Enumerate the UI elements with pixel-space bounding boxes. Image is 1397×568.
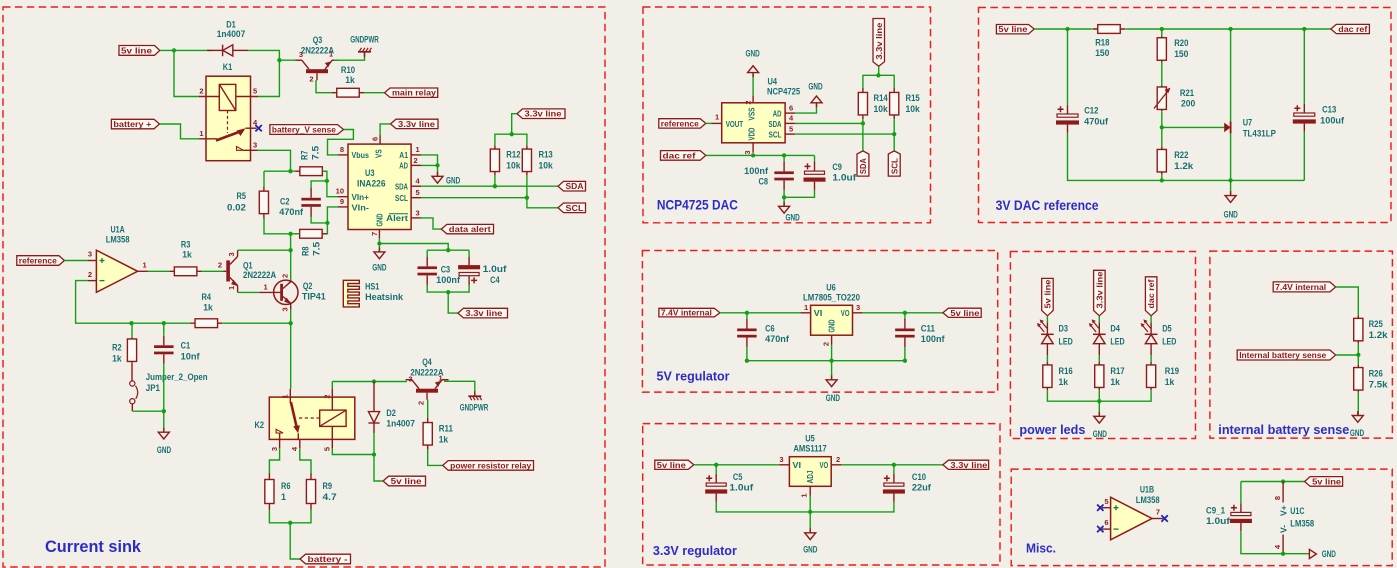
wire bottom rail	[1162, 179, 1305, 181]
resistor R7 7.5	[295, 170, 327, 172]
wire K1... K2 pin2 up	[331, 382, 333, 389]
svg-text:7.4V internal: 7.4V internal	[1275, 282, 1326, 292]
svg-text:3: 3	[253, 141, 257, 150]
junction	[325, 221, 329, 225]
wire JP1 to C1 node	[132, 410, 164, 412]
svg-text:R8: R8	[301, 247, 311, 257]
svg-text:Q4: Q4	[422, 357, 432, 367]
power label 7.4V internal sense	[1273, 282, 1335, 292]
svg-text:SDA: SDA	[858, 158, 868, 174]
svg-text:R2: R2	[112, 343, 122, 353]
svg-text:2: 2	[323, 395, 332, 399]
junction	[288, 169, 292, 173]
svg-text:1: 1	[281, 492, 286, 502]
svg-text:R4: R4	[202, 292, 212, 302]
svg-text:R3: R3	[181, 240, 191, 250]
wire Q4 base down to R11	[427, 400, 429, 418]
svg-text:GND: GND	[1350, 428, 1365, 438]
section box 3V DAC reference	[979, 8, 1392, 223]
svg-text:2: 2	[281, 274, 290, 278]
junction	[1160, 125, 1164, 129]
wire 5v line to U1C V+	[1241, 481, 1305, 483]
ground GND	[158, 428, 169, 439]
wire node to R8	[322, 223, 327, 234]
svg-text:U1B: U1B	[1140, 485, 1155, 495]
svg-text:4.7: 4.7	[323, 492, 337, 502]
LED D4	[1089, 316, 1106, 363]
section box Misc	[1011, 469, 1392, 565]
svg-text:main relay: main relay	[392, 88, 436, 98]
wire R11 to power resistor relay	[428, 450, 443, 466]
svg-text:1: 1	[281, 395, 290, 399]
power label 5v line	[119, 46, 160, 56]
svg-text:SCL: SCL	[566, 203, 584, 213]
capacitor C8 100nf	[783, 162, 785, 172]
svg-text:5: 5	[789, 125, 793, 134]
svg-text:GND: GND	[746, 49, 761, 59]
svg-text:GND: GND	[827, 320, 837, 333]
svg-text:AMS1117: AMS1117	[793, 444, 826, 454]
wire R25 to R26	[1357, 344, 1359, 365]
ground GND 3.3V reg	[805, 528, 816, 539]
svg-text:U1C: U1C	[1290, 506, 1305, 516]
junction	[903, 359, 907, 363]
wire U3 Alert to data alert	[421, 218, 441, 229]
junction	[372, 452, 376, 456]
junction	[325, 179, 329, 183]
junction	[435, 163, 439, 167]
svg-text:3: 3	[281, 307, 290, 311]
svg-text:3.3v line: 3.3v line	[950, 460, 987, 470]
net label SDA vertical	[857, 151, 869, 176]
svg-text:1: 1	[439, 374, 443, 383]
svg-text:R21: R21	[1180, 88, 1194, 98]
svg-text:GND: GND	[157, 445, 172, 455]
svg-text:3.3v line: 3.3v line	[525, 109, 562, 119]
svg-text:3.3v line: 3.3v line	[465, 308, 502, 318]
wire node to 5v line label	[374, 455, 383, 482]
resistor R2 1k	[131, 337, 133, 363]
svg-text:R20: R20	[1174, 38, 1188, 48]
wire dac ref rail	[706, 154, 815, 156]
svg-text:C13: C13	[1322, 105, 1336, 115]
wire Q2 emitter down to rail	[290, 309, 292, 323]
svg-text:1.0uf: 1.0uf	[1206, 516, 1231, 526]
resistor R6 1	[268, 474, 270, 510]
svg-text:LED: LED	[1110, 336, 1125, 346]
wire C12 top	[1067, 29, 1069, 105]
svg-text:3: 3	[299, 50, 303, 59]
svg-text:GND: GND	[803, 545, 818, 555]
wire U3 SDA line	[421, 185, 558, 187]
svg-text:C12: C12	[1084, 106, 1098, 116]
svg-text:dac ref: dac ref	[1338, 24, 1367, 34]
svg-text:V-: V-	[1278, 525, 1288, 533]
svg-text:1k: 1k	[203, 303, 213, 313]
wire 5v line to D1 anode	[160, 49, 212, 51]
IC U4 NCP4725	[722, 103, 785, 143]
power symbol GNDPWR top	[358, 51, 371, 53]
wire node to Q3 collector	[279, 59, 295, 61]
wire sense node	[1336, 354, 1359, 356]
wire R4 to emitter node	[222, 322, 290, 324]
ground GND at U4 AD	[811, 96, 822, 107]
svg-text:150: 150	[1174, 49, 1188, 59]
section box power leds	[1010, 252, 1195, 439]
wire to U6 VI	[720, 312, 801, 314]
wire U4 SCL line	[795, 133, 894, 135]
net label 3.3v line 3.3V reg	[943, 460, 989, 469]
resistor R18 150	[1093, 28, 1125, 30]
net label dac ref at U4	[661, 151, 706, 161]
wire C5 top	[715, 465, 717, 474]
resistor R16 1k	[1046, 362, 1048, 390]
svg-text:3.3V regulator: 3.3V regulator	[653, 544, 737, 558]
svg-text:1k: 1k	[1110, 377, 1120, 387]
svg-text:AD: AD	[773, 108, 782, 118]
IC U6 LM7805_TO220	[811, 305, 853, 335]
wire K2 pin4 to R9	[300, 448, 311, 474]
wire reference to U1A +	[64, 260, 88, 262]
svg-text:5v line: 5v line	[998, 24, 1027, 34]
svg-text:10k: 10k	[539, 161, 554, 171]
diode D1 1n4007	[207, 45, 248, 57]
junction	[172, 48, 176, 52]
svg-text:3: 3	[416, 209, 420, 218]
junction	[372, 379, 376, 383]
svg-text:VOUT: VOUT	[726, 119, 744, 129]
svg-text:3V DAC reference: 3V DAC reference	[996, 197, 1099, 213]
junction	[1356, 353, 1360, 357]
resistor R15 10k	[893, 88, 895, 119]
svg-text:3: 3	[408, 375, 412, 384]
ground GND above U4	[748, 66, 759, 77]
wire C13 top	[1303, 29, 1305, 104]
capacitor C13 100uf polarized	[1303, 104, 1305, 113]
section box 5V regulator	[642, 251, 997, 393]
svg-text:ADJ: ADJ	[805, 470, 815, 483]
junction	[1302, 27, 1306, 31]
svg-text:U3: U3	[365, 168, 375, 178]
LED D5	[1141, 316, 1158, 363]
wire U5 VO to 3.3v line	[841, 464, 943, 466]
svg-text:dac ref: dac ref	[663, 150, 696, 160]
no-connect X U1B pin7	[1161, 515, 1167, 521]
svg-text:GNDPWR: GNDPWR	[460, 403, 489, 413]
svg-text:R14: R14	[874, 93, 888, 103]
net label 3.3v line at caps	[458, 308, 508, 318]
net label data alert	[441, 224, 493, 233]
wire R17 to rail	[1098, 390, 1100, 401]
no-connect X U1B pin6	[1097, 526, 1103, 532]
power label battery +	[111, 119, 159, 129]
svg-text:LED: LED	[1059, 336, 1074, 346]
svg-text:R18: R18	[1095, 38, 1109, 48]
wire bottom rail 3.3V reg	[716, 502, 894, 512]
ground GND at U3 AD	[432, 172, 443, 183]
svg-text:Q3: Q3	[313, 35, 323, 45]
svg-text:VSS: VSS	[747, 107, 757, 120]
svg-text:C9_1: C9_1	[1206, 506, 1225, 516]
wire top rail right	[1125, 28, 1331, 30]
junction	[1160, 27, 1164, 31]
wire U1A out to R3	[148, 270, 170, 272]
transistor Q2 TIP41	[259, 280, 298, 309]
wire battery_V sense to U3 Vbus pin 8	[328, 130, 354, 155]
svg-text:5: 5	[323, 447, 332, 451]
wire Q3 emitter to GNDPWR	[334, 52, 365, 60]
svg-text:GND: GND	[786, 213, 801, 223]
svg-text:AD: AD	[399, 161, 408, 171]
junction	[892, 132, 896, 136]
svg-text:1: 1	[329, 50, 333, 59]
svg-text:3: 3	[856, 303, 860, 312]
svg-text:battery -: battery -	[308, 554, 348, 564]
svg-text:K1: K1	[223, 62, 233, 72]
junction	[288, 521, 292, 525]
svg-text:3: 3	[88, 250, 92, 259]
resistor R4 1k	[190, 322, 222, 324]
wire to 3.3v label bottom	[448, 292, 458, 313]
junction	[446, 290, 450, 294]
wire rail to R2	[131, 323, 133, 337]
transistor Q1 2N2222A	[224, 250, 239, 292]
wire U4 SDA line	[795, 122, 863, 124]
svg-text:10nf: 10nf	[181, 352, 201, 362]
resistor R10 1k	[332, 92, 364, 94]
svg-text:1.0uf: 1.0uf	[832, 173, 857, 183]
svg-text:VO: VO	[820, 460, 829, 470]
wire R5 top	[263, 171, 265, 186]
capacitor C10 22uf polarized	[893, 474, 895, 483]
svg-text:1k: 1k	[345, 75, 355, 85]
svg-text:5v line: 5v line	[121, 45, 152, 55]
ground GND 5V reg	[826, 375, 837, 386]
resistor R19 1k	[1150, 362, 1152, 390]
svg-text:7.5: 7.5	[311, 146, 321, 160]
ground GND 3V DAC	[1225, 191, 1236, 202]
wire node to U3 pin 10	[327, 181, 338, 197]
wire R13 bottom	[526, 175, 528, 197]
svg-text:SDA: SDA	[395, 182, 408, 192]
svg-text:3.3v line: 3.3v line	[398, 119, 435, 129]
svg-text:VI: VI	[814, 308, 823, 318]
svg-text:R26: R26	[1369, 369, 1383, 379]
svg-text:Misc.: Misc.	[1026, 541, 1056, 556]
resistor R17 1k	[1098, 362, 1100, 390]
LED D3	[1037, 316, 1054, 363]
svg-text:470nf: 470nf	[765, 334, 790, 344]
svg-text:reference: reference	[19, 256, 57, 266]
wire C2 bottom to VIn- node	[311, 217, 327, 223]
svg-text:1: 1	[800, 494, 809, 498]
capacitor C4 1.0uf polarized	[468, 257, 470, 265]
svg-text:R7: R7	[300, 151, 310, 161]
wire GND stub 3V DAC	[1230, 180, 1232, 195]
svg-text:6: 6	[789, 104, 793, 113]
capacitor C5 1.0uf polarized	[715, 474, 717, 483]
wire C9_1 top	[1240, 482, 1242, 504]
svg-text:6: 6	[1104, 518, 1108, 527]
junction	[861, 121, 865, 125]
svg-text:0.02: 0.02	[227, 203, 246, 213]
svg-text:2: 2	[417, 401, 426, 405]
IC U3 INA226	[348, 144, 411, 229]
wire R10 to main relay	[364, 92, 385, 94]
svg-text:GND: GND	[826, 393, 841, 403]
svg-text:1: 1	[264, 283, 268, 292]
svg-text:TIP41: TIP41	[302, 292, 326, 302]
junction	[892, 463, 896, 467]
svg-text:3: 3	[779, 455, 783, 464]
capacitor C11 100nf	[904, 319, 906, 329]
wire reference to VOUT	[706, 122, 712, 124]
wire R15 bottom	[893, 119, 895, 134]
power label 5v line vertical	[1042, 278, 1054, 315]
svg-text:SCL: SCL	[889, 158, 899, 174]
resistor R26 7.5k	[1357, 365, 1359, 393]
svg-text:6: 6	[371, 137, 380, 141]
svg-text:LM358: LM358	[1136, 495, 1160, 505]
svg-text:power leds: power leds	[1019, 422, 1085, 437]
svg-text:5v line: 5v line	[391, 476, 422, 486]
resistor R20 150	[1161, 35, 1163, 63]
svg-text:1.0uf: 1.0uf	[483, 264, 508, 274]
svg-text:1: 1	[804, 303, 808, 312]
net label battery -	[300, 554, 351, 564]
wire R3 to Q1 base	[202, 270, 224, 272]
section box Current sink	[3, 7, 605, 567]
junction	[714, 463, 718, 467]
svg-text:2: 2	[836, 455, 840, 464]
junction	[782, 195, 786, 199]
svg-text:3.3v line: 3.3v line	[1094, 271, 1104, 308]
svg-text:100nf: 100nf	[921, 334, 946, 344]
svg-text:5v line: 5v line	[657, 460, 686, 470]
svg-text:C3: C3	[441, 265, 451, 275]
svg-text:1: 1	[715, 113, 719, 122]
ground GND DAC	[779, 202, 790, 213]
svg-text:1n4007: 1n4007	[386, 419, 415, 429]
svg-text:VIn-: VIn-	[352, 202, 370, 212]
wire to 3.3v label	[512, 114, 517, 135]
section box internal battery sense	[1210, 251, 1393, 438]
svg-text:D2: D2	[386, 408, 396, 418]
svg-text:Internal battery sense: Internal battery sense	[1239, 350, 1326, 360]
junction	[129, 321, 133, 325]
svg-text:Vbus: Vbus	[352, 150, 370, 160]
resistor R13 10k	[526, 145, 528, 175]
svg-text:C1: C1	[181, 341, 191, 351]
svg-text:R6: R6	[281, 481, 291, 491]
junction	[162, 409, 166, 413]
wire C1 to rail	[163, 323, 165, 336]
wire bottom rail Misc	[1241, 531, 1309, 554]
jumper JP1 Jumper_2_Open	[130, 363, 138, 411]
svg-text:3: 3	[743, 151, 752, 155]
trimmer R21 200	[1161, 85, 1163, 111]
wire to battery-	[290, 523, 300, 559]
wire K2 pin1 from Q2 node	[290, 323, 292, 389]
ground GND Misc right arrow	[1309, 549, 1316, 558]
svg-text:SCL: SCL	[395, 193, 408, 203]
svg-text:Q2: Q2	[303, 281, 313, 291]
svg-text:C8: C8	[759, 177, 769, 187]
svg-text:8: 8	[1273, 496, 1282, 500]
junction	[903, 311, 907, 315]
wire U4 AD to GND	[795, 102, 816, 113]
svg-text:10k: 10k	[506, 161, 521, 171]
capacitor C1 10nf	[163, 336, 165, 346]
svg-text:R13: R13	[539, 150, 553, 160]
wire U6 GND to rail	[831, 345, 833, 361]
svg-text:100nf: 100nf	[436, 275, 461, 285]
transistor Q3 2N2222A	[306, 69, 328, 73]
svg-text:R16: R16	[1059, 366, 1073, 376]
resistor R11 1k	[427, 418, 429, 450]
net label 3.3v line vertical	[873, 19, 885, 67]
op-amp U1B LM358	[1102, 497, 1163, 540]
resistor R9 4.7	[310, 474, 312, 510]
svg-text:R5: R5	[237, 191, 247, 201]
net label 3.3v line pullups	[517, 109, 565, 119]
svg-text:2: 2	[744, 101, 753, 105]
svg-text:LM358: LM358	[1290, 519, 1314, 529]
svg-text:5: 5	[253, 87, 257, 96]
wire battery+ to K1 pin 1	[160, 124, 200, 139]
svg-text:1.2k: 1.2k	[1369, 330, 1389, 340]
svg-text:5V regulator: 5V regulator	[657, 370, 730, 384]
ground GND under U3	[374, 247, 385, 258]
svg-text:7.4V internal: 7.4V internal	[661, 308, 712, 318]
wire 3.3v to pullup rail	[878, 66, 880, 75]
svg-text:Current sink: Current sink	[45, 537, 142, 556]
svg-text:SDA: SDA	[566, 181, 584, 191]
diode D2 1n4007	[368, 382, 379, 434]
no-connect X on K1 pin 4	[255, 125, 261, 131]
heatsink HS1	[343, 280, 359, 307]
svg-text:470nf: 470nf	[279, 207, 304, 217]
wire D1 cathode to Q3 node	[248, 50, 279, 96]
wire GND node to caps	[379, 244, 448, 251]
svg-text:1: 1	[416, 145, 420, 154]
net label main relay	[385, 88, 438, 97]
wire caps bottom rail	[427, 285, 469, 292]
wire SDA down to label	[862, 123, 864, 151]
svg-text:GND: GND	[372, 263, 387, 273]
net label 3.3v line at U3 VS	[391, 119, 439, 128]
wire to U5 VI	[694, 464, 779, 466]
wire relay drive rail	[332, 381, 407, 383]
svg-text:NCP4725: NCP4725	[767, 87, 800, 97]
power label 5v line 3.3V reg	[655, 460, 694, 469]
svg-text:NCP4725 DAC: NCP4725 DAC	[657, 197, 738, 213]
svg-text:SCL: SCL	[769, 129, 782, 139]
svg-text:5v line: 5v line	[1042, 279, 1052, 308]
junction	[377, 241, 381, 245]
wire node down to collector node	[290, 234, 292, 250]
wire GND stub	[831, 361, 833, 380]
wire ref node to U7	[1162, 126, 1225, 128]
junction	[745, 359, 749, 363]
wire R14 bottom	[862, 119, 864, 123]
wire D2 to 5v node	[373, 433, 375, 455]
wire C6 top	[746, 313, 748, 319]
op-amp power U1C LM358	[1282, 482, 1284, 554]
svg-text:dac ref: dac ref	[1146, 279, 1156, 308]
svg-text:C9: C9	[832, 162, 842, 172]
svg-text:22uf: 22uf	[912, 483, 932, 493]
